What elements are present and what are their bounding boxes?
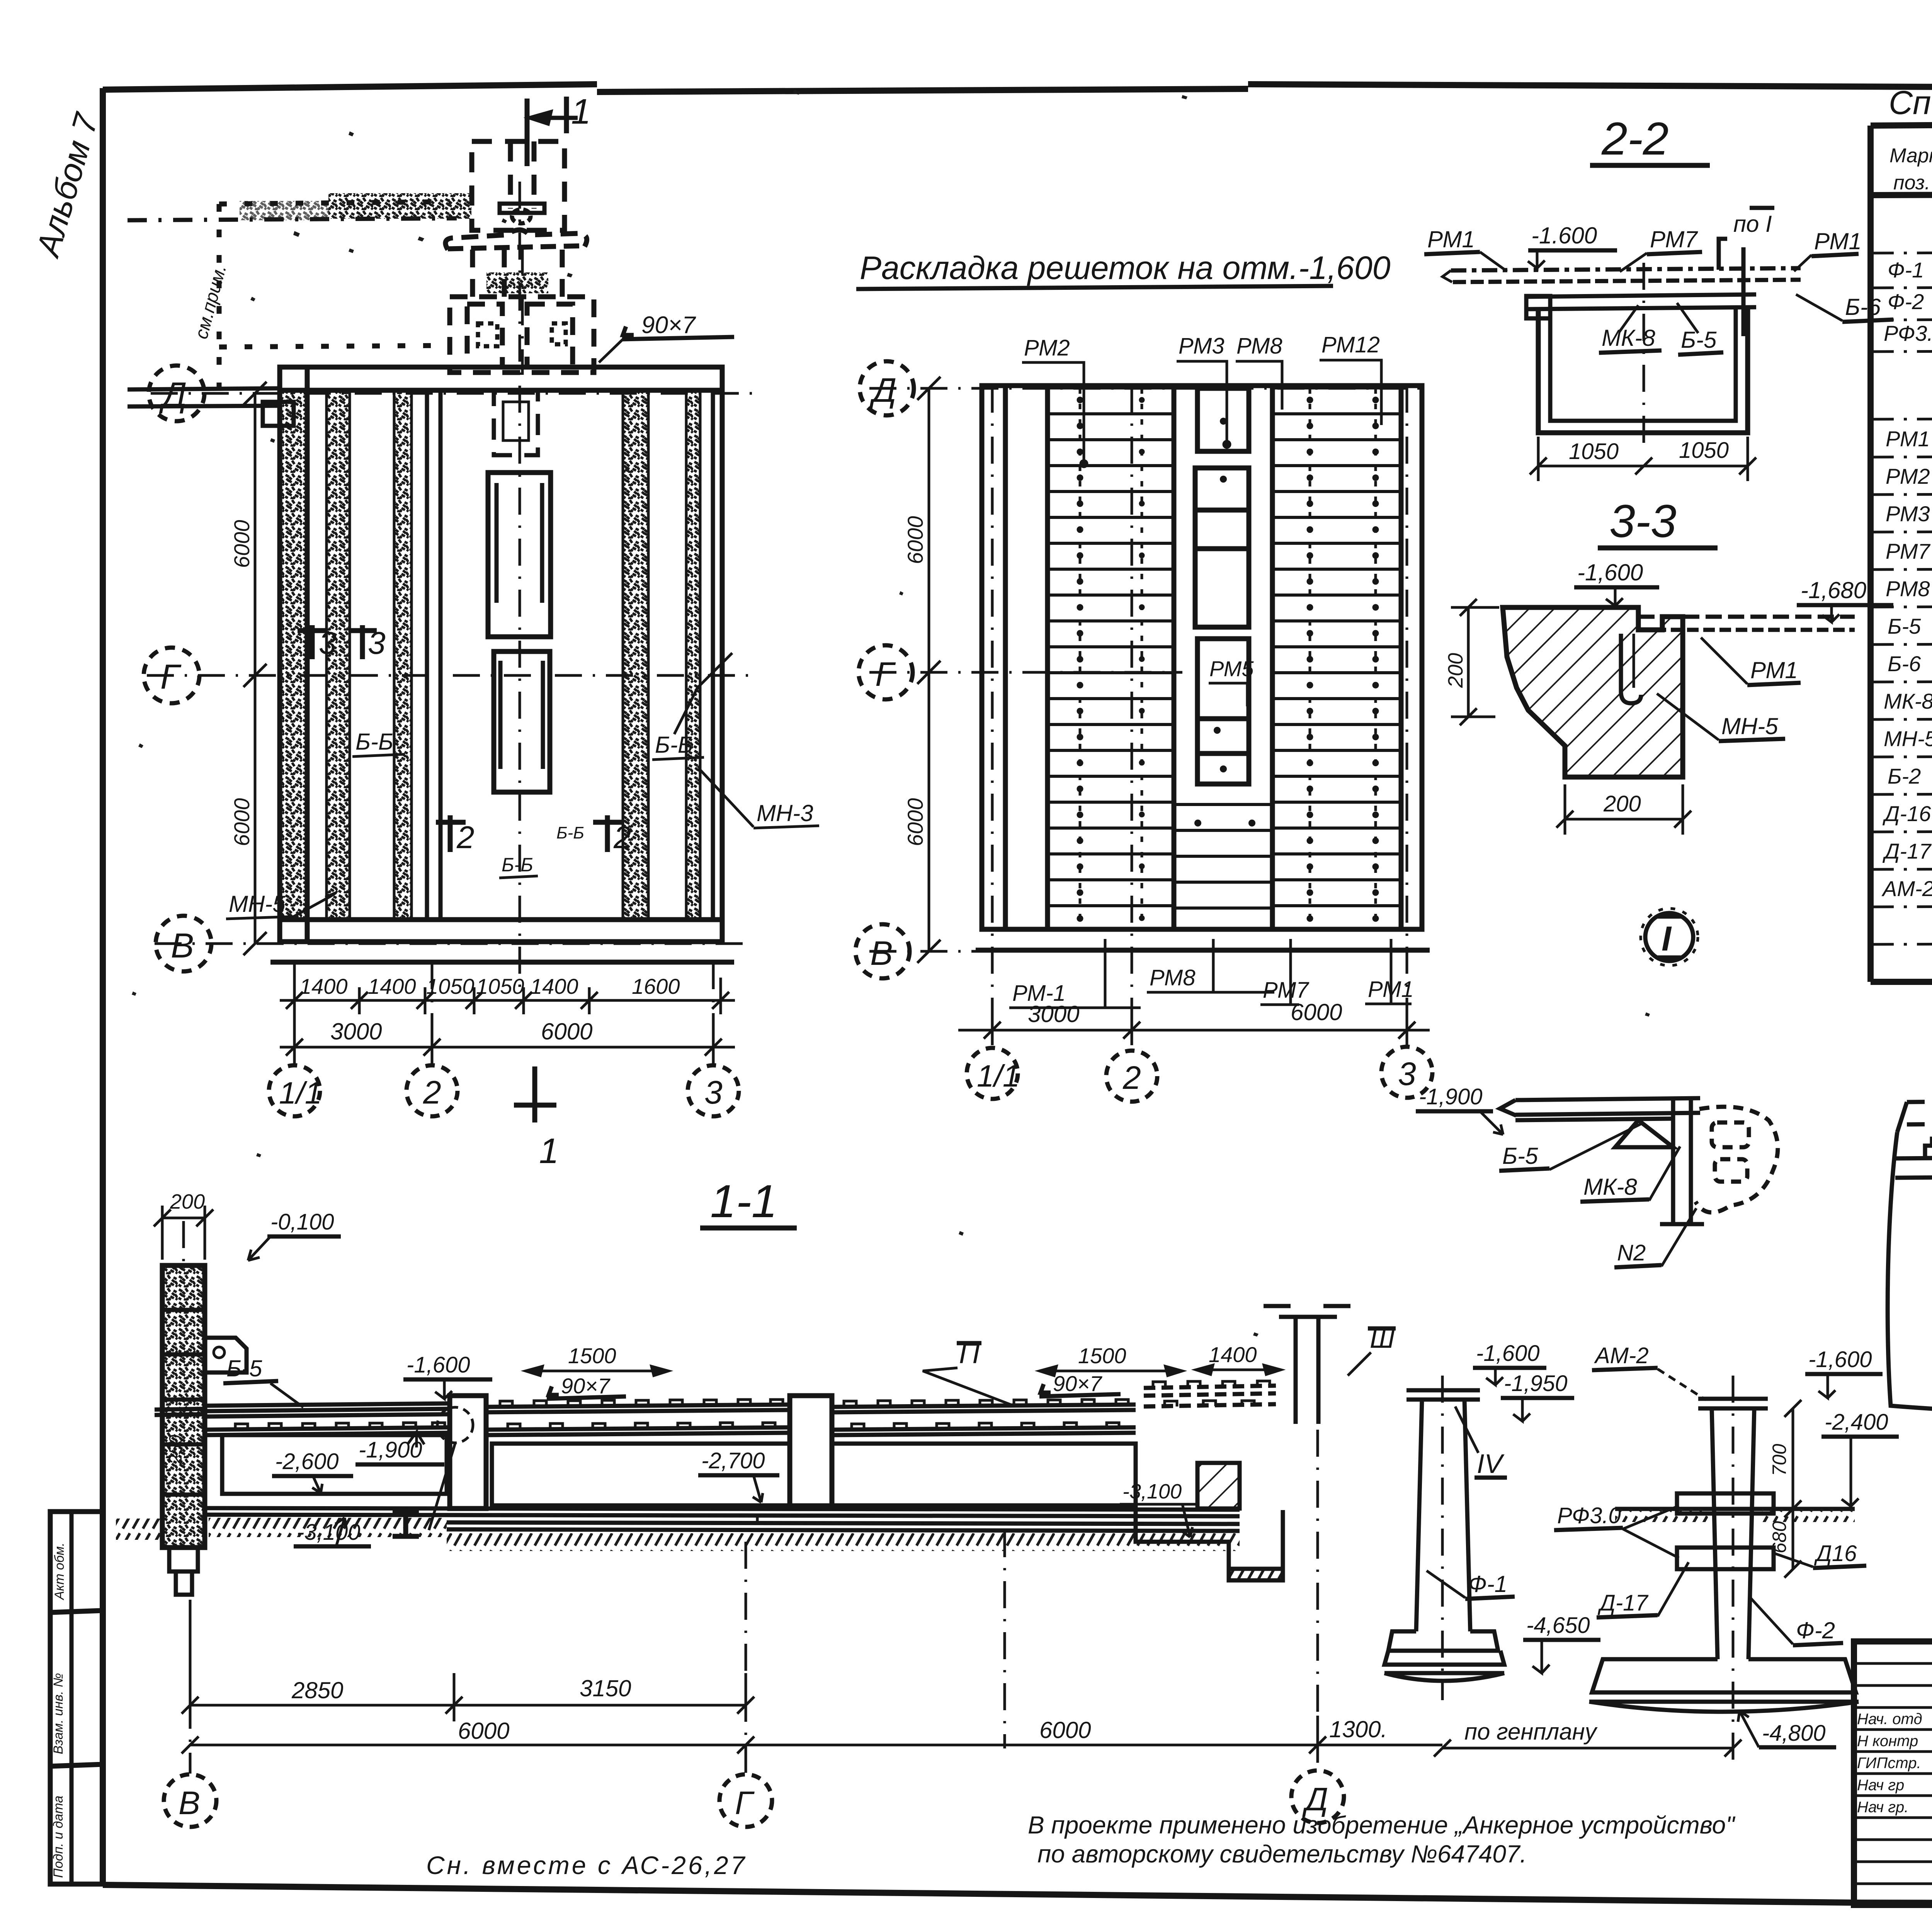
svg-text:-0,100: -0,100 (270, 1209, 334, 1235)
svg-text:В: В (179, 1785, 200, 1821)
svg-text:Д-17: Д-17 (1882, 839, 1932, 863)
svg-text:РМ3: РМ3 (1179, 333, 1225, 359)
transformer bushing turret dashed (472, 141, 565, 230)
svg-text:Нач. отд: Нач. отд (1857, 1711, 1922, 1728)
svg-text:Д16: Д16 (1814, 1541, 1857, 1566)
svg-text:АМ-2: АМ-2 (1881, 876, 1932, 901)
detail III drawing: anchor block (1888, 1049, 1932, 1417)
svg-text:МК-8: МК-8 (1602, 325, 1655, 351)
detail 3-3 (1444, 560, 1893, 835)
scan noise bands (328, 193, 471, 219)
grid bubble 3 (688, 962, 739, 1116)
section marks 3-3 (298, 625, 377, 659)
foundation Ф-2 elevation (1589, 1376, 1859, 1762)
узел I detail drawing (1416, 1084, 1778, 1267)
section 2-2 (1424, 113, 1893, 481)
svg-text:РФ3.0: РФ3.0 (1884, 321, 1932, 345)
svg-text:3: 3 (319, 626, 337, 661)
section mark 1 (top) (527, 97, 578, 166)
grid axis lines plan1 (147, 182, 753, 997)
svg-text:1/1: 1/1 (977, 1059, 1020, 1093)
svg-text:РМ8: РМ8 (1236, 333, 1282, 359)
svg-text:РМ12: РМ12 (1321, 332, 1380, 357)
axis lines plan2 (869, 386, 1430, 1043)
beam band A (155, 1403, 450, 1435)
svg-text:-1,600: -1,600 (1476, 1341, 1539, 1366)
svg-text:поз.: поз. (1893, 172, 1930, 194)
svg-text:6000: 6000 (230, 798, 254, 846)
svg-text:РМ1: РМ1 (1886, 427, 1930, 451)
bushing post at Д (1264, 1306, 1350, 1424)
stub beam to frame left (128, 388, 294, 426)
svg-text:I: I (1662, 920, 1672, 958)
masonry pier left (162, 1221, 205, 1595)
svg-text:2-2: 2-2 (1601, 113, 1668, 165)
svg-text:1050: 1050 (476, 974, 524, 998)
svg-text:1050: 1050 (426, 974, 474, 998)
grid bubble 2 plan2 (1106, 1051, 1157, 1102)
svg-text:90×7: 90×7 (561, 1374, 611, 1398)
svg-text:N2: N2 (1617, 1240, 1646, 1265)
foundation Ф-1 elevation (1384, 1376, 1504, 1700)
grid bubble Г plan2 (859, 645, 913, 699)
slab lines (205, 1508, 1240, 1531)
svg-text:-3,100: -3,100 (297, 1520, 360, 1545)
svg-text:МК-8: МК-8 (1583, 1174, 1637, 1200)
grid bubble Г (144, 648, 199, 703)
svg-text:РМ7: РМ7 (1650, 226, 1698, 252)
svg-text:1050: 1050 (1679, 438, 1729, 463)
anchor МН-5 in concrete (1621, 634, 1641, 703)
support pier 1 (450, 1396, 486, 1509)
insulator cap and circle (500, 204, 544, 223)
svg-text:3: 3 (1398, 1056, 1416, 1092)
svg-text:1050: 1050 (1569, 439, 1619, 464)
svg-text:200: 200 (1444, 653, 1467, 688)
svg-text:-1,680: -1,680 (1801, 577, 1866, 603)
svg-text:6000: 6000 (903, 798, 927, 846)
svg-text:В: В (171, 927, 194, 965)
vertical dims 6000 plan2 (917, 377, 940, 963)
svg-text:-1,600: -1,600 (1577, 560, 1643, 585)
svg-text:РМ2: РМ2 (1886, 464, 1930, 488)
dim 200 bottom (1556, 784, 1691, 835)
svg-text:РМ5: РМ5 (1209, 656, 1254, 681)
svg-text:1400: 1400 (530, 974, 578, 998)
svg-text:Раскладка решеток на отм.-1,60: Раскладка решеток на отм.-1,600 (860, 250, 1391, 286)
label 90x7 (599, 312, 734, 362)
svg-text:1: 1 (571, 92, 591, 131)
specification table (1871, 84, 1932, 982)
svg-text:200: 200 (170, 1190, 205, 1213)
grating band C (832, 1405, 1136, 1435)
grid bubble В (1-1) (164, 1600, 216, 1827)
dim 700 (1784, 1400, 1801, 1517)
dims 3000/6000 plan2 (958, 1009, 1430, 1045)
svg-text:6000: 6000 (458, 1718, 509, 1744)
grid bubble Д (149, 366, 204, 421)
svg-text:МН-5: МН-5 (229, 891, 286, 917)
transformer tank dashed (450, 250, 594, 372)
bracket on pier (205, 1338, 247, 1372)
svg-text:6000: 6000 (230, 520, 254, 568)
outer walls plan2 (976, 386, 1430, 950)
pit right (1136, 1463, 1283, 1580)
svg-text:1400: 1400 (299, 974, 348, 998)
svg-text:2: 2 (613, 820, 631, 855)
title block (1854, 1641, 1932, 1905)
МК-8 dashed profile (1696, 1107, 1778, 1212)
svg-text:Б-Б: Б-Б (556, 823, 584, 842)
grid bubble Д (1-1) (1291, 1430, 1344, 1823)
svg-text:Ф-2: Ф-2 (1796, 1617, 1835, 1643)
svg-text:1/1: 1/1 (279, 1076, 322, 1110)
beam lines 2-2 (1528, 294, 1756, 309)
svg-text:2: 2 (1122, 1060, 1141, 1096)
dim 1050 1050 (1530, 437, 1756, 481)
svg-text:-4,800: -4,800 (1762, 1721, 1825, 1746)
bolt bumps band A (235, 1423, 445, 1429)
plan view 2 (855, 332, 1432, 1102)
plan outer walls (270, 367, 734, 962)
svg-text:РМ2: РМ2 (1024, 335, 1070, 361)
grating rows mid bottom (1174, 803, 1273, 929)
svg-text:РМ1: РМ1 (1427, 226, 1475, 252)
svg-text:РМ1: РМ1 (1750, 657, 1798, 683)
anchor bolt left (1925, 1139, 1932, 1328)
middle column boxes (1195, 388, 1249, 784)
svg-text:РМ7: РМ7 (1886, 539, 1930, 563)
svg-text:ІV: ІV (1477, 1449, 1505, 1479)
svg-text:3150: 3150 (580, 1675, 631, 1701)
ground line through Ф-2 (1615, 1507, 1855, 1511)
grating band B (486, 1405, 790, 1435)
svg-text:-4,650: -4,650 (1526, 1613, 1590, 1638)
svg-text:1500: 1500 (568, 1344, 616, 1368)
grating rows left block (1048, 386, 1174, 929)
left stamp column (50, 1512, 103, 1884)
grid bubble Г (1-1) (719, 1542, 772, 1827)
joint dashed verticals + dots left block (1080, 388, 1142, 929)
I mark on slab (393, 1512, 419, 1536)
dashed fence rectangle (219, 202, 450, 402)
angle bracket (1615, 1120, 1673, 1147)
svg-text:Г: Г (160, 658, 182, 696)
svg-text:1600: 1600 (632, 974, 680, 998)
dim по генплану (1434, 1740, 1742, 1757)
hatched wall strips (280, 390, 713, 920)
grid bubble 2 (406, 962, 457, 1116)
door openings middle (488, 473, 551, 792)
concrete hatched mass (1503, 607, 1683, 777)
svg-text:3: 3 (368, 626, 386, 661)
svg-text:700: 700 (1769, 1444, 1790, 1476)
svg-text:Нач гр: Нач гр (1857, 1777, 1904, 1794)
svg-text:МН-5: МН-5 (1721, 713, 1778, 739)
trough 2-2 (1538, 309, 1748, 433)
svg-text:МК-8: МК-8 (1884, 689, 1932, 713)
grid bubble В (156, 916, 211, 971)
svg-text:-1.600: -1.600 (1531, 223, 1597, 248)
post (1660, 1098, 1704, 1224)
dim 680 (1784, 1509, 1801, 1578)
scan noise specks (132, 72, 1932, 1337)
grid bubble Д plan2 (860, 361, 914, 415)
svg-text:Ф-1: Ф-1 (1888, 258, 1924, 282)
vertical dim 6000x2 plan1 (243, 382, 267, 955)
svg-text:3-3: 3-3 (1609, 495, 1676, 547)
joint dashed verticals + dots right block (1310, 388, 1376, 929)
svg-text:-2,600: -2,600 (275, 1449, 338, 1474)
svg-text:Взам. инв. №: Взам. инв. № (51, 1673, 66, 1754)
svg-text:-1,600: -1,600 (406, 1352, 470, 1378)
beam with left arrow (1500, 1098, 1700, 1120)
dashed L-pieces near Д (1144, 1386, 1276, 1406)
section mark 1 (bottom) (514, 1066, 556, 1122)
svg-text:3000: 3000 (330, 1019, 382, 1044)
svg-text:1400: 1400 (368, 974, 416, 998)
grid bubble 1/1 plan2 (967, 1048, 1018, 1099)
svg-text:Сн. вместе с АС-26,27: Сн. вместе с АС-26,27 (426, 1851, 747, 1879)
svg-text:Д: Д (869, 371, 896, 409)
top labels РМ2 РМ3 РМ8 РМ12 (1024, 332, 1380, 361)
svg-text:В: В (870, 934, 893, 972)
dim chain row1 plan1 (280, 978, 735, 1014)
plan view 1 (128, 92, 819, 1171)
svg-text:по авторскому свидетельству: по авторскому свидетельству №647407. (1037, 1840, 1527, 1868)
svg-text:Б-5: Б-5 (1888, 614, 1921, 638)
support pier 2 (790, 1396, 832, 1506)
svg-text:1400: 1400 (1209, 1342, 1257, 1367)
svg-text:Б-5: Б-5 (226, 1355, 262, 1381)
svg-text:-1,900: -1,900 (1419, 1084, 1482, 1109)
dim 200 left (1451, 599, 1499, 725)
svg-text:Нач гр.: Нач гр. (1857, 1799, 1908, 1816)
svg-text:В проекте применено изобретени: В проекте применено изобретение „Анкерно… (1028, 1811, 1736, 1839)
svg-text:2: 2 (423, 1074, 441, 1111)
svg-text:-3,100: -3,100 (1122, 1480, 1182, 1503)
svg-text:3: 3 (704, 1074, 723, 1111)
bolt bumps band B (500, 1400, 783, 1429)
troughs (222, 1435, 1136, 1505)
ригель РФ3.0 bars (1677, 1493, 1774, 1514)
detail circle I (1641, 908, 1698, 966)
svg-text:1300.: 1300. (1329, 1716, 1387, 1742)
svg-text:6000: 6000 (1291, 999, 1342, 1025)
svg-text:Д-16: Д-16 (1882, 801, 1931, 826)
svg-text:МН-3: МН-3 (757, 800, 813, 826)
svg-text:90×7: 90×7 (1053, 1371, 1102, 1396)
svg-text:Спецификация элементов к схем: Спецификация элементов к схеме расположе… (1889, 84, 1932, 121)
svg-text:Б-5: Б-5 (1502, 1143, 1538, 1169)
grating РМ1 right (1638, 617, 1855, 630)
svg-text:Ф-1: Ф-1 (1468, 1571, 1507, 1597)
dashed beam Б-2 over block (1907, 1100, 1932, 1124)
svg-text:Г: Г (735, 1785, 755, 1821)
svg-text:Д-17: Д-17 (1597, 1590, 1649, 1616)
svg-text:-2,700: -2,700 (701, 1448, 765, 1473)
insulator skirt (446, 230, 587, 250)
svg-text:680: 680 (1769, 1521, 1790, 1553)
dim 1500 + L90x7 (left) (526, 1366, 668, 1376)
dim chain row2 plan1 (280, 1024, 735, 1066)
grid bubble 1/1 (269, 962, 322, 1116)
svg-text:РМ1: РМ1 (1814, 228, 1862, 254)
svg-text:1-1: 1-1 (710, 1175, 777, 1227)
svg-text:90×7: 90×7 (641, 312, 696, 338)
ground hatch (209, 1518, 447, 1537)
svg-text:-1,900: -1,900 (359, 1437, 422, 1463)
svg-text:1500: 1500 (1078, 1344, 1126, 1368)
svg-text:по генплану: по генплану (1464, 1719, 1598, 1745)
svg-text:3000: 3000 (1028, 1001, 1079, 1027)
svg-text:6000: 6000 (903, 516, 927, 564)
svg-text:Акт обм.: Акт обм. (52, 1543, 67, 1600)
svg-text:Б-5: Б-5 (1681, 327, 1717, 353)
svg-text:-1,950: -1,950 (1504, 1371, 1567, 1396)
svg-text:ГИПстр.: ГИПстр. (1857, 1755, 1921, 1772)
svg-text:Б-Б: Б-Б (502, 854, 533, 876)
svg-text:2850: 2850 (291, 1677, 343, 1703)
bottom labels РМ-1 РМ8 РМ7 РМ1 (1012, 965, 1414, 1006)
grating rows right block (1272, 386, 1401, 929)
svg-text:Марка,: Марка, (1889, 145, 1932, 167)
svg-text:6000: 6000 (541, 1019, 592, 1044)
svg-text:Б-Б: Б-Б (655, 732, 693, 758)
dims under section 1-1 (182, 1607, 1442, 1762)
svg-text:1: 1 (539, 1131, 559, 1171)
section 1-1 (116, 1190, 1396, 1595)
svg-text:РФ3.0: РФ3.0 (1557, 1503, 1621, 1528)
svg-text:по I: по I (1733, 211, 1772, 237)
svg-text:2: 2 (456, 820, 474, 855)
svg-text:Ф-2: Ф-2 (1888, 289, 1924, 314)
svg-text:250: 250 (165, 1435, 185, 1465)
grid bubble В plan2 (855, 924, 910, 978)
svg-text:6000: 6000 (1039, 1717, 1091, 1743)
svg-text:РМ8: РМ8 (1886, 577, 1930, 601)
svg-text:Н контр: Н контр (1857, 1733, 1918, 1750)
section marks 2-2 plan1 (436, 815, 623, 852)
svg-text:Б-6: Б-6 (1845, 294, 1881, 320)
grid bubble 3 plan2 (1381, 1047, 1432, 1098)
svg-text:-1,600: -1,600 (1808, 1347, 1872, 1372)
bolt bumps band C (844, 1400, 1128, 1429)
svg-text:РМ3: РМ3 (1886, 502, 1930, 526)
svg-text:Б-2: Б-2 (1888, 764, 1921, 788)
svg-text:200: 200 (1603, 791, 1641, 816)
svg-text:Б-Б: Б-Б (355, 729, 393, 755)
concrete block outline wavy (1888, 1132, 1932, 1417)
grating band 2-2 (1442, 268, 1801, 282)
svg-text:Г: Г (875, 655, 896, 693)
dim 200 above pier (154, 1206, 213, 1260)
svg-text:Подп. и дата: Подп. и дата (51, 1796, 66, 1878)
svg-text:МН-5: МН-5 (1884, 726, 1932, 751)
block top lines (1895, 1156, 1932, 1178)
svg-text:Б-6: Б-6 (1888, 651, 1921, 676)
svg-text:АМ-2: АМ-2 (1594, 1343, 1649, 1368)
svg-text:РМ8: РМ8 (1150, 965, 1196, 990)
svg-text:-2,400: -2,400 (1825, 1410, 1888, 1435)
